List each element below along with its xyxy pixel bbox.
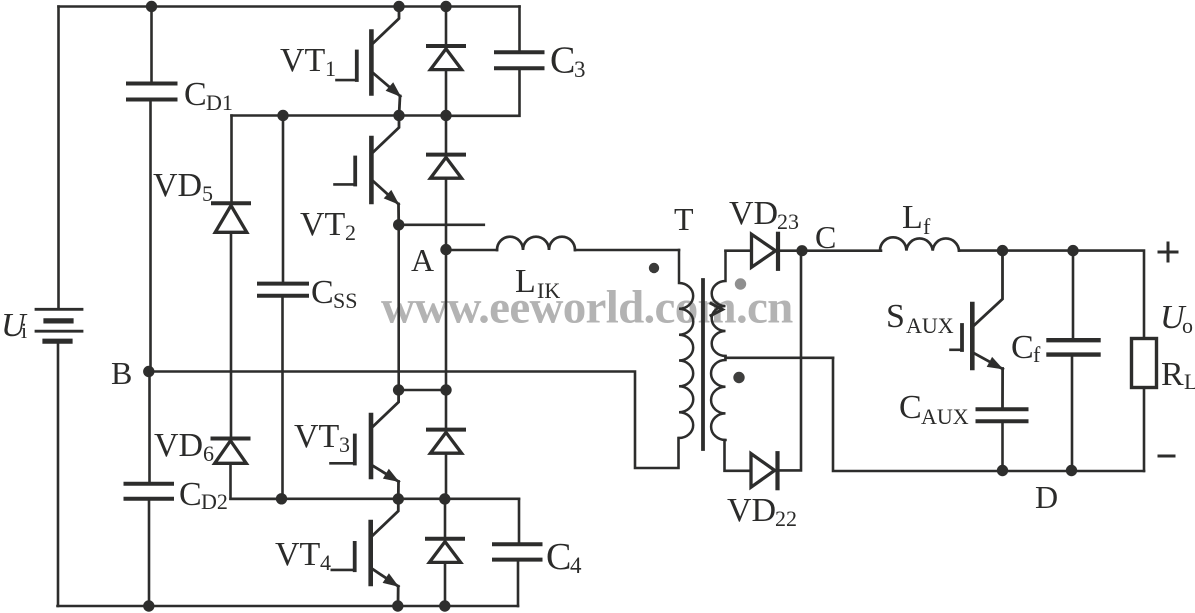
minus sign [1159, 455, 1174, 458]
node dot bottom rail left [143, 600, 154, 611]
primary polarity dot [649, 263, 659, 273]
wire CD2 to bottom rail [148, 501, 151, 607]
svg-text:AUX: AUX [906, 313, 954, 338]
svg-text:www.eeworld.com.cn: www.eeworld.com.cn [381, 282, 793, 334]
wire D4 to rail [444, 564, 447, 606]
wire D3 column [445, 390, 448, 428]
inductor Lf [880, 237, 959, 250]
svg-text:D: D [1035, 479, 1058, 515]
svg-text:1: 1 [325, 56, 336, 81]
node dot D3 top [440, 384, 451, 395]
capacitor C4 branch [518, 499, 521, 542]
wire VT column mid (crosses B wire) [397, 225, 400, 390]
wire VD5 column upper [230, 116, 233, 202]
transistor SAUX (IGBT) [951, 251, 1004, 407]
svg-text:C: C [550, 40, 575, 82]
transistor VT2 (IGBT) [335, 116, 400, 225]
wire CD1 to B [149, 102, 152, 372]
wire y499 [231, 497, 520, 500]
svg-text:C: C [311, 274, 334, 311]
diode VD23 [752, 234, 779, 269]
capacitor CD2 [126, 484, 173, 499]
diode VD22 [751, 453, 778, 488]
svg-text:C: C [184, 76, 207, 113]
svg-text:VD: VD [154, 427, 203, 464]
transformer secondary upper winding [712, 251, 726, 356]
wire VT2 emitter stub right [399, 224, 484, 227]
svg-text:VT: VT [275, 536, 321, 573]
wire VD23 to node C [779, 249, 881, 252]
diode VD6 [213, 439, 249, 464]
svg-text:IK: IK [537, 278, 560, 303]
svg-text:C: C [179, 476, 202, 513]
wire y390 [399, 389, 446, 392]
capacitor C3 branch [518, 7, 521, 51]
node dot CSS bottom [276, 493, 287, 504]
svg-text:L: L [902, 199, 923, 236]
node C dot [796, 245, 807, 256]
wire secondary bottom to VD22 [725, 440, 752, 471]
diode D2 (antiparallel of VT2) [428, 155, 464, 179]
svg-text:2: 2 [345, 220, 356, 245]
node dot y499 VT [393, 493, 404, 504]
wire D2 column [445, 116, 448, 153]
wire secondary top to VD23 [726, 249, 752, 252]
svg-text:VT: VT [294, 418, 340, 455]
arrow mark on core [711, 304, 723, 316]
wire B to CD2 [148, 372, 151, 482]
node dot VT2 emitter [393, 219, 404, 230]
svg-text:f: f [923, 214, 931, 239]
node dot CAUX bottom [997, 465, 1008, 476]
wire Cf top [1072, 251, 1075, 338]
svg-text:4: 4 [320, 550, 331, 575]
svg-text:o: o [1182, 313, 1193, 338]
wire D2 to node A [445, 179, 448, 250]
node dot y499 D [439, 493, 450, 504]
wire D4 column [444, 499, 447, 537]
svg-text:C: C [546, 536, 571, 578]
svg-text:C: C [899, 389, 922, 426]
node dot y115 D [440, 110, 451, 121]
node dot y115 VT [393, 110, 404, 121]
node dot VT3 collector [393, 384, 404, 395]
svg-text:i: i [21, 318, 27, 343]
transformer T primary winding [679, 250, 693, 438]
svg-text:VD: VD [727, 492, 776, 529]
secondary upper polarity dot [735, 278, 746, 289]
wire Lf to output top rail [959, 251, 1144, 338]
wire y115 horizontal (VD5/CSS branch to bridge) [232, 114, 447, 117]
resistor RL [1132, 339, 1157, 388]
transistor VT4 (IGBT) [332, 499, 399, 606]
svg-text:C: C [815, 219, 836, 255]
node A dot [440, 244, 451, 255]
diode D1 (antiparallel of VT1) [428, 46, 464, 70]
node dot rail D [439, 600, 450, 611]
transistor VT1 (IGBT) [337, 7, 402, 116]
inductor LIK [497, 237, 575, 250]
capacitor CSS [259, 284, 307, 296]
node dot VT1 collector [393, 1, 404, 12]
svg-text:C: C [1011, 329, 1034, 366]
svg-text:D1: D1 [206, 90, 233, 115]
svg-text:5: 5 [202, 181, 213, 206]
wire D1 column [445, 7, 448, 45]
capacitor Cf [1049, 340, 1099, 354]
node dot rail VT [392, 600, 403, 611]
wire D1 to y115 [445, 71, 448, 116]
wire VD6 to y499 [231, 465, 282, 499]
wire CD1/CD2 column top [150, 7, 153, 83]
wire D column A to y390 [445, 250, 448, 390]
transformer secondary lower winding [711, 356, 725, 440]
wire top rail [59, 5, 520, 8]
wire CAUX to bottom rail [1001, 423, 1004, 470]
svg-text:B: B [111, 355, 132, 391]
node dot SAUX top [997, 245, 1008, 256]
wire C3 bottom to y115 [446, 70, 520, 116]
capacitor CD1 [128, 84, 176, 100]
wire LIK to transformer primary [575, 249, 679, 252]
svg-text:23: 23 [777, 209, 799, 234]
node dot Cf top [1067, 245, 1078, 256]
svg-text:L: L [515, 263, 536, 300]
wire left column lower [57, 342, 60, 607]
diode D4 (antiparallel of VT4) [427, 539, 463, 563]
node dot top rail left [146, 1, 157, 12]
wire B horizontal to primary bottom [149, 372, 679, 469]
wire center tap down to output rail [833, 358, 1144, 471]
battery U1 (Ui source) [36, 309, 82, 341]
svg-text:A: A [411, 242, 434, 278]
diode VD5 [213, 203, 249, 232]
wire CSS column upper [282, 116, 285, 282]
svg-text:SS: SS [333, 288, 357, 313]
svg-text:3: 3 [574, 57, 586, 82]
wire left column [57, 7, 60, 309]
svg-text:S: S [886, 298, 905, 335]
svg-text:R: R [1161, 356, 1184, 393]
svg-text:f: f [1033, 342, 1041, 367]
svg-text:AUX: AUX [921, 404, 969, 429]
node dot D1 top [440, 1, 451, 12]
svg-text:D2: D2 [201, 489, 228, 514]
diode D3 (antiparallel of VT3) [428, 430, 464, 454]
wire D3 to y499 [445, 454, 448, 499]
wire bottom rail [58, 605, 519, 608]
wire A to LIK [446, 249, 497, 252]
wire VD5 to VD6 [230, 234, 233, 437]
svg-text:L: L [1184, 369, 1195, 394]
svg-text:3: 3 [339, 432, 350, 457]
transistor VT3 (IGBT) [331, 390, 400, 499]
svg-text:VT: VT [300, 206, 346, 243]
wire VD22 cathode up to node C [779, 251, 802, 471]
svg-text:VD: VD [729, 195, 778, 232]
svg-text:6: 6 [203, 441, 214, 466]
svg-text:VD: VD [153, 167, 202, 204]
wire CSS column lower [281, 298, 284, 499]
capacitor CAUX [978, 409, 1027, 421]
wire RL bottom to rail [1143, 388, 1146, 471]
wire center tap [726, 356, 834, 359]
svg-text:4: 4 [570, 553, 582, 578]
transformer core [701, 280, 705, 449]
node dot CSS top [277, 110, 288, 121]
node dot Cf bottom [1066, 465, 1077, 476]
plus sign [1159, 243, 1177, 261]
svg-text:22: 22 [775, 506, 797, 531]
wire Cf bottom [1071, 357, 1074, 471]
secondary lower polarity dot [733, 372, 744, 383]
svg-text:T: T [674, 201, 694, 237]
svg-text:VT: VT [280, 42, 326, 79]
wire C4 bottom to rail [517, 562, 520, 606]
node B dot [143, 366, 154, 377]
